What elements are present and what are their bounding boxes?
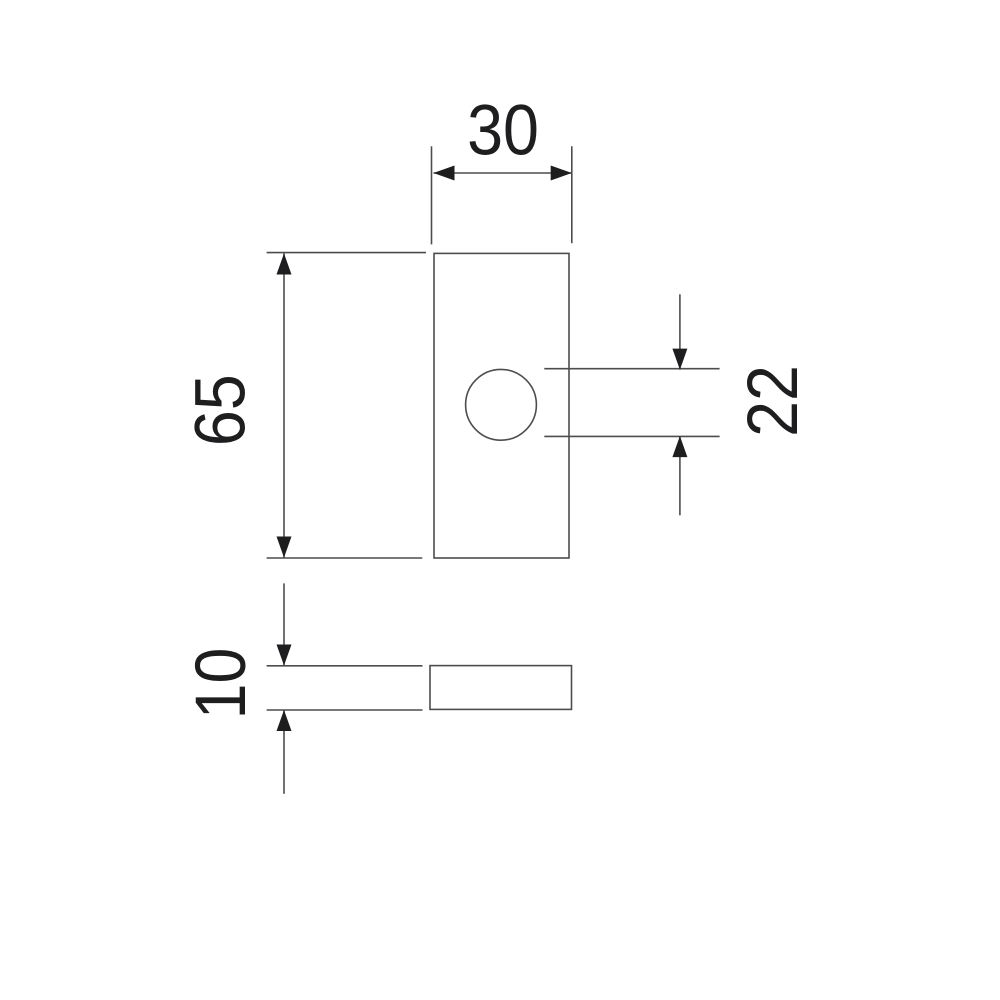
dim 65 top extension line — [267, 252, 426, 254]
dim 10 lower leader line — [283, 710, 285, 794]
dim 22 upper leader line — [679, 294, 681, 369]
dim 22 upper arrowhead — [672, 349, 687, 370]
dim 30 left arrowhead — [433, 166, 454, 181]
dim 30 right extension line — [571, 146, 573, 243]
svg-text:10: 10 — [182, 648, 260, 720]
svg-text:30: 30 — [467, 92, 539, 170]
svg-text:22: 22 — [734, 365, 812, 437]
dim 65 dimension line — [283, 253, 285, 557]
dim 30 left extension line — [431, 146, 433, 244]
dim 10 upper leader line — [283, 583, 285, 665]
dim 30 right arrowhead — [551, 166, 572, 181]
dim 10 bottom extension line — [267, 709, 423, 711]
dim 22 bottom extension line — [544, 435, 719, 437]
dim 65 bottom arrowhead — [277, 537, 292, 558]
dim 65 bottom extension line — [267, 557, 423, 559]
front view plate outline — [434, 253, 569, 558]
dim 65 top arrowhead — [277, 253, 292, 274]
dim 22 lower arrowhead — [672, 436, 687, 457]
svg-text:65: 65 — [182, 374, 260, 446]
dim 10 lower arrowhead — [277, 710, 292, 731]
dim 22 top extension line — [544, 368, 719, 370]
hole circle — [466, 369, 537, 440]
dim 30 dimension line — [433, 172, 571, 174]
dim 10 upper arrowhead — [277, 645, 292, 666]
side view plate outline — [430, 666, 572, 710]
dim 22 lower leader line — [679, 436, 681, 515]
dim 10 top extension line — [267, 665, 423, 667]
